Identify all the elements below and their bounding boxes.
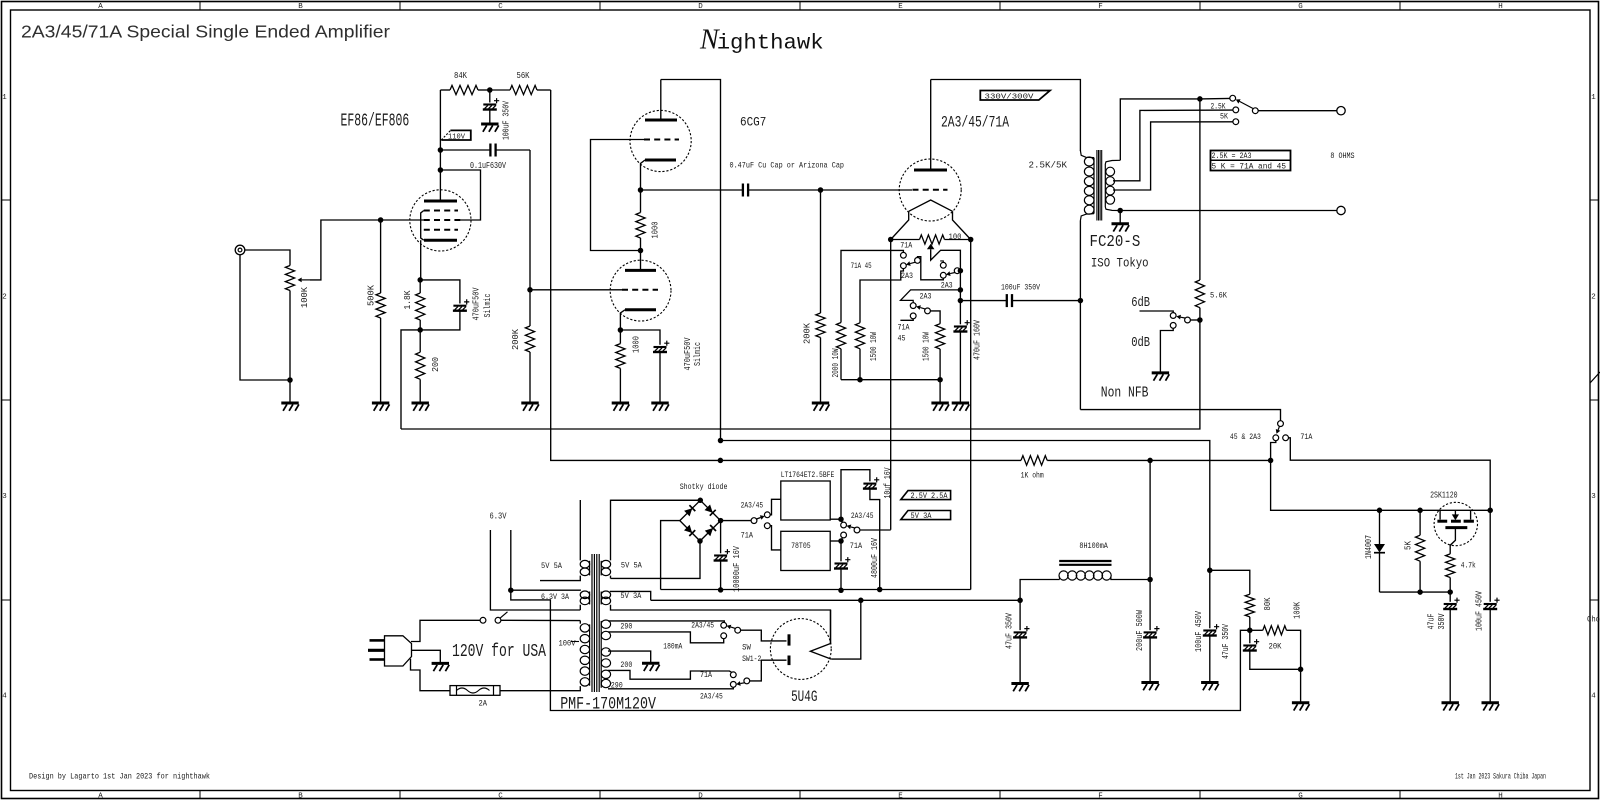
cathode resistor 1.8K — [416, 280, 425, 330]
label 5K sel — [1220, 111, 1229, 121]
2SK1120 gate bar — [1445, 526, 1467, 529]
label 5U4G — [791, 688, 817, 706]
svg-text:470uF50V: 470uF50V — [683, 337, 693, 370]
junction cathode bottom — [417, 327, 423, 333]
svg-text:2.5V 2.5A: 2.5V 2.5A — [911, 493, 948, 501]
HV tap 290 bottom — [608, 687, 733, 689]
wire output hot — [1258, 110, 1337, 112]
contact hv2 71A — [730, 672, 736, 678]
label 2.5K/5K — [1029, 161, 1068, 171]
ground 0dB — [1152, 373, 1170, 381]
svg-text:8 OHMS: 8 OHMS — [1330, 151, 1354, 161]
capacitor 10000uF 16V — [714, 521, 730, 590]
svg-text:200: 200 — [620, 660, 632, 670]
label EF86/EF806 — [341, 111, 410, 131]
contact reg 71A — [764, 523, 770, 529]
label 71A sel — [1300, 432, 1313, 442]
contact Bplus top — [1278, 421, 1284, 427]
ground 100uF feed — [1201, 683, 1219, 691]
OPT primary winding — [1084, 157, 1094, 214]
OPT secondary winding — [1105, 164, 1114, 207]
svg-text:4: 4 — [1591, 693, 1596, 701]
svg-text:2A3/45/71A Special Single Ende: 2A3/45/71A Special Single Ended Amplifie… — [21, 22, 390, 42]
contact 0dB — [1170, 323, 1176, 329]
label 100uF 350V — [502, 101, 512, 140]
junction bias 1500-2 — [937, 377, 943, 383]
ground divider — [1292, 703, 1310, 711]
resistor 84K — [440, 85, 489, 94]
bridge diode TL — [684, 505, 695, 516]
bridge diode TR — [705, 505, 716, 516]
svg-text:330V/300V: 330V/300V — [985, 93, 1035, 101]
OPT tap1 — [1113, 110, 1233, 181]
svg-text:4.7k: 4.7k — [1461, 561, 1476, 571]
svg-text:5V 5A: 5V 5A — [621, 561, 643, 571]
svg-text:84K: 84K — [454, 71, 467, 81]
svg-text:71A: 71A — [900, 241, 913, 251]
ground 200uF — [1141, 683, 1159, 691]
wire Bplus feed line — [721, 441, 1210, 571]
svg-text:4: 4 — [2, 693, 7, 701]
junction upper cathode — [638, 187, 644, 193]
svg-text:1N4007: 1N4007 — [1364, 535, 1374, 559]
6CG7 upper cathode — [641, 160, 677, 190]
wire plate to OPT — [931, 80, 1081, 152]
junction pot bottom — [287, 377, 293, 383]
EF86 g2 to plate strap — [440, 170, 480, 220]
label 20K — [1269, 642, 1283, 652]
contact C2 — [925, 308, 931, 314]
svg-text:A: A — [98, 3, 103, 11]
pole out select — [854, 527, 860, 533]
fuse 2A — [450, 686, 500, 696]
junction 5U4G output — [858, 598, 864, 604]
IC LT1764 box — [781, 481, 830, 520]
svg-text:6.3V: 6.3V — [490, 512, 507, 522]
svg-text:2SK1120: 2SK1120 — [1430, 491, 1458, 501]
label 200K — [511, 328, 521, 350]
wire 6.3V line a — [490, 530, 580, 610]
mosfet bus — [1380, 509, 1491, 511]
wire coupling to 6CG7 grid — [529, 150, 531, 290]
junction Bplus 45-2A3 — [1268, 458, 1274, 464]
svg-text:LT1764ET2.5BFE: LT1764ET2.5BFE — [781, 470, 835, 480]
capacitor 0.1uF630V — [440, 144, 530, 157]
contact C1 — [910, 303, 916, 309]
svg-text:D: D — [698, 793, 703, 800]
svg-text:F: F — [1098, 793, 1103, 800]
potentiometer 100K — [285, 266, 310, 291]
label 5V 5A right — [621, 561, 643, 571]
label 10000uF 16V — [732, 546, 742, 592]
label 4.7k — [1461, 561, 1476, 571]
wire 45-2A3 contact down — [1271, 441, 1276, 461]
flag 330V/300V — [980, 91, 1050, 102]
svg-text:2A3: 2A3 — [941, 281, 953, 291]
svg-text:290: 290 — [620, 622, 632, 632]
svg-text:0.47uF Cu Cap or Arizona Cap: 0.47uF Cu Cap or Arizona Cap — [730, 160, 845, 170]
svg-text:E: E — [898, 793, 903, 800]
Cho margin note — [1587, 615, 1600, 625]
svg-text:110V: 110V — [448, 133, 465, 141]
wire 71A contact down — [1289, 438, 1491, 511]
svg-text:C: C — [498, 3, 503, 11]
label 8H100mA — [1079, 541, 1108, 551]
junction cathode top — [417, 277, 423, 283]
label 1N4007 — [1364, 535, 1374, 559]
wire jack to pot — [245, 250, 290, 266]
svg-text:2A3: 2A3 — [920, 292, 932, 302]
svg-text:2A3/45/71A: 2A3/45/71A — [941, 113, 1009, 131]
wire bridge minus — [661, 521, 680, 590]
ground 100uF out — [1482, 703, 1500, 711]
label 2A3/45 hv bottom — [700, 691, 723, 701]
junction filament right — [968, 237, 974, 243]
AC plug — [368, 636, 412, 666]
transistor 2SK1120 — [1434, 502, 1477, 545]
svg-text:5K: 5K — [1220, 111, 1229, 121]
junction diode top — [1377, 508, 1383, 514]
wire commonA to B2 — [918, 257, 944, 280]
svg-text:8H100mA: 8H100mA — [1079, 541, 1108, 551]
wire upper plate to B+ riser — [661, 80, 721, 441]
HV tap 200 upper — [608, 632, 724, 643]
svg-text:3: 3 — [2, 493, 7, 501]
label 100 — [949, 232, 962, 242]
5U4G filament — [810, 643, 831, 659]
svg-text:71A: 71A — [898, 323, 911, 333]
svg-text:4800uF 16V: 4800uF 16V — [870, 538, 880, 578]
ground bias bus — [931, 403, 949, 411]
capacitor 10uF 16V — [841, 470, 880, 590]
ground 47uF gate — [1442, 703, 1460, 711]
gate reference rail — [1380, 591, 1451, 593]
ground EF86 cathode — [412, 403, 430, 411]
label 100uF 350V ultrapath — [1001, 283, 1041, 293]
svg-text:5K: 5K — [1404, 541, 1414, 550]
wire divider to ground — [1300, 669, 1302, 702]
wire to 2.5K contact — [1200, 97, 1230, 100]
contact Bplus 71A — [1283, 435, 1289, 441]
label 2SK1120 — [1430, 491, 1458, 501]
OPT tap2 — [1113, 122, 1233, 190]
label 56K — [517, 71, 530, 81]
label FC20-S — [1090, 233, 1141, 252]
label 2A3/45/71A — [941, 113, 1009, 131]
EF86 g3-cathode link — [421, 211, 424, 241]
svg-text:G: G — [1298, 793, 1303, 800]
contact B1 hook — [940, 261, 946, 268]
label 5.6K — [1210, 291, 1228, 301]
junction choke out — [1147, 577, 1153, 583]
junction 10uF minus — [877, 587, 883, 593]
svg-text:5 K = 71A and 45: 5 K = 71A and 45 — [1212, 161, 1287, 171]
label 2A3 a — [901, 271, 913, 281]
svg-text:71A: 71A — [1300, 432, 1313, 442]
label 1000 lower — [632, 336, 642, 353]
pole NFB — [1185, 317, 1198, 323]
label 71A reg — [741, 531, 754, 541]
tube EF86 — [410, 190, 471, 251]
bridge top corner — [698, 498, 704, 504]
wire plug ground — [412, 650, 441, 663]
PMF 5V5A left winding — [540, 500, 590, 581]
junction 4800uF minus — [838, 588, 844, 594]
2A3 grid — [913, 189, 948, 191]
tube 5U4G — [770, 619, 831, 680]
svg-text:71A: 71A — [741, 531, 754, 541]
label 1.8K — [403, 290, 413, 310]
resistor 56K — [490, 85, 551, 94]
wire 5U4G filament top — [830, 610, 832, 643]
svg-text:45 & 2A3: 45 & 2A3 — [1230, 432, 1261, 442]
EF86 grid2 — [424, 219, 461, 221]
resistor 1000 upper — [636, 190, 645, 251]
svg-text:Non NFB: Non NFB — [1101, 384, 1149, 401]
2SK1120 gate lead — [1450, 528, 1455, 554]
junction plate-coupling — [438, 147, 444, 153]
label 2.5K sel — [1211, 102, 1227, 112]
label 0dB — [1131, 336, 1150, 351]
svg-text:2: 2 — [1591, 294, 1596, 302]
junction 78T05 out — [838, 538, 844, 544]
svg-text:1500 10W: 1500 10W — [869, 332, 879, 361]
label 80K — [1263, 597, 1273, 610]
svg-text:56K: 56K — [517, 71, 530, 81]
wire pot bottom to ground — [289, 380, 291, 403]
pole hv1 — [735, 627, 741, 633]
svg-text:H: H — [1498, 793, 1503, 800]
junction common B — [958, 268, 964, 274]
wire OPT primary bottom — [1079, 301, 1081, 410]
wire bias bus to ground — [939, 380, 941, 403]
label 10uf 16V — [883, 467, 893, 498]
svg-text:PMF-170M120V: PMF-170M120V — [560, 695, 656, 715]
svg-text:1000: 1000 — [632, 336, 642, 353]
label 470uF50V lower — [683, 337, 693, 370]
flag 5V 3A — [901, 511, 951, 522]
wire grid to tube — [821, 189, 913, 191]
pole output selector — [1252, 108, 1258, 114]
tube 6CG7 lower — [610, 260, 671, 321]
EF86 cathode — [421, 240, 457, 280]
svg-text:B: B — [298, 793, 303, 800]
junction output grid — [818, 187, 824, 193]
6CG7 upper grid leak — [591, 140, 645, 251]
hum pot 100 — [891, 235, 971, 301]
svg-text:1K ohm: 1K ohm — [1021, 471, 1044, 481]
svg-text:10000uF 16V: 10000uF 16V — [732, 546, 742, 592]
resistor 200K — [525, 290, 534, 403]
capacitor 47uF 350V divider — [1243, 630, 1301, 669]
svg-text:120V for USA: 120V for USA — [452, 642, 546, 662]
svg-text:100V: 100V — [559, 639, 577, 649]
label 71A hv — [700, 670, 713, 680]
2A3 filament right leg — [953, 211, 971, 239]
label 2000 10W — [831, 348, 841, 377]
svg-text:SW: SW — [742, 642, 751, 652]
wire raw B+ from 5U4G — [651, 599, 1020, 601]
label 47uF 350V gate — [1427, 613, 1447, 629]
svg-text:200K: 200K — [511, 328, 521, 350]
wire to 78T05 in — [770, 526, 781, 550]
svg-text:2.5K: 2.5K — [1211, 102, 1227, 112]
wire Bplus rail front — [551, 90, 721, 460]
switch arm A — [906, 261, 915, 266]
svg-text:ISO Tokyo: ISO Tokyo — [1091, 256, 1149, 271]
wire NFB line — [401, 320, 1200, 429]
HV tap 200 lower — [608, 670, 732, 679]
wire pot wiper to grid node — [310, 220, 424, 280]
label 100uF 450V feed — [1194, 611, 1204, 652]
svg-text:100uF 350V: 100uF 350V — [1001, 283, 1041, 293]
label 47uF 350V divider — [1221, 624, 1231, 659]
svg-text:1.8K: 1.8K — [403, 290, 413, 310]
title text — [21, 22, 390, 42]
contact hv1 200 — [721, 633, 727, 639]
capacitor 470uF50V Silmic 6CG7 — [620, 330, 669, 403]
contact B2 2A3 — [940, 272, 946, 278]
svg-text:0.1uF630V: 0.1uF630V — [470, 161, 506, 171]
resistor 1500 10W first — [855, 323, 864, 380]
ground center tap — [642, 663, 660, 671]
junction divider — [1247, 628, 1253, 634]
arm reg select — [757, 515, 765, 520]
svg-text:5U4G: 5U4G — [791, 688, 817, 706]
svg-text:2A3/45: 2A3/45 — [700, 691, 723, 701]
6CG7 lower grid — [530, 289, 658, 291]
junction SRPP mid — [638, 248, 644, 254]
label 71A filament — [900, 241, 913, 251]
svg-text:0dB: 0dB — [1131, 336, 1150, 351]
Nighthawk logo — [699, 25, 824, 56]
contact 6dB — [1170, 313, 1176, 319]
2A3 plate — [914, 80, 947, 171]
svg-text:2A3: 2A3 — [901, 271, 913, 281]
diode 1N4007 — [1374, 510, 1385, 592]
capacitor 100uF 450V feed — [1203, 570, 1219, 682]
switch arm B — [946, 271, 955, 276]
resistor 200 cathode — [416, 330, 425, 403]
footer design credit — [29, 772, 210, 782]
contact out 71A — [841, 532, 847, 539]
junction divider ground — [1298, 667, 1304, 673]
svg-text:Shotky diode: Shotky diode — [680, 482, 728, 492]
EF86 plate — [424, 90, 457, 201]
wire 6CG7 cathode to coupling cap — [641, 189, 743, 191]
wire choke out riser — [1149, 460, 1151, 579]
resistor 4.7k — [1446, 554, 1455, 592]
PMF HV secondary — [601, 620, 610, 688]
choke 8H100mA — [1059, 561, 1150, 580]
svg-text:SW1-2: SW1-2 — [742, 654, 761, 664]
junction lower cathode — [618, 327, 624, 333]
wire 0dB to ground — [1160, 328, 1173, 372]
flag 2.5V 2.5A — [901, 491, 951, 501]
OPT secondary bottom lead — [1105, 207, 1120, 211]
wire pole to filament — [860, 529, 891, 531]
junction NFB pole — [1197, 317, 1203, 323]
contact common B — [954, 268, 960, 274]
label 120V for USA — [452, 642, 546, 662]
2SK1120 drain tap — [1437, 510, 1447, 521]
heater bias line — [511, 590, 1250, 710]
arm hv1 — [727, 625, 736, 630]
svg-text:180mA: 180mA — [663, 642, 683, 652]
junction 5K top — [1417, 508, 1423, 514]
svg-text:H: H — [1498, 3, 1503, 11]
svg-text:2A: 2A — [479, 700, 488, 709]
2SK1120 arrow tap — [1451, 510, 1461, 521]
pole hv2 — [744, 678, 750, 684]
label 6dB — [1131, 296, 1150, 311]
label 470uF50V — [472, 287, 482, 320]
label 1500 10W second — [922, 332, 932, 361]
svg-text:200: 200 — [431, 357, 441, 372]
junction NFB takeoff — [1197, 96, 1203, 102]
svg-text:5V 5A: 5V 5A — [541, 561, 563, 571]
wire bridge AC top — [611, 499, 701, 501]
label 45 c — [898, 334, 906, 344]
wire Bplus bus — [720, 459, 1021, 461]
contact common A — [915, 258, 921, 264]
svg-text:100uF 350V: 100uF 350V — [502, 101, 512, 140]
wire plug hot — [411, 620, 480, 641]
contact reg 2A3-45 — [764, 512, 770, 518]
junction bus end — [1487, 508, 1493, 514]
contact Bplus 45-2A3 — [1273, 435, 1279, 441]
label SW — [742, 642, 751, 652]
HV center tap — [608, 651, 651, 663]
wire bridge AC bottom — [611, 541, 701, 578]
contact 2.5K — [1230, 95, 1236, 101]
label 2A fuse — [479, 700, 488, 709]
6CG7 upper grid — [644, 139, 679, 141]
footer date place — [1455, 772, 1546, 782]
bridge bottom corner — [697, 538, 703, 544]
label ISO Tokyo — [1091, 256, 1149, 271]
capacitor 100uF 350V decoupling — [483, 90, 499, 124]
svg-text:71A: 71A — [700, 670, 713, 680]
capacitor 470uF50V Silmic EF86 — [420, 280, 469, 330]
svg-text:2A3/45: 2A3/45 — [691, 621, 714, 631]
6CG7 upper plate — [645, 80, 677, 121]
svg-text:500K: 500K — [367, 284, 377, 306]
svg-text:1500 10W: 1500 10W — [922, 332, 932, 361]
wire filament right leg down — [970, 240, 972, 590]
resistor 20K — [1250, 626, 1301, 670]
contact hv1 290 — [721, 622, 727, 628]
junction filament left — [888, 237, 894, 243]
svg-text:100K: 100K — [300, 286, 310, 308]
6CG7 lower plate — [625, 251, 656, 271]
terminal output hot — [1337, 107, 1345, 115]
label 71A out — [850, 541, 863, 551]
junction 10000uF minus — [718, 587, 724, 593]
svg-text:2.5K/5K: 2.5K/5K — [1029, 161, 1068, 171]
svg-text:6dB: 6dB — [1131, 296, 1150, 311]
ground 200K grid — [812, 403, 830, 411]
svg-text:6.3V 3A: 6.3V 3A — [541, 592, 570, 602]
svg-text:100K: 100K — [1293, 601, 1303, 618]
junction 4.7k bottom — [1447, 589, 1453, 595]
arm NFB — [1176, 315, 1185, 320]
label PMF-170M120V — [560, 695, 656, 715]
label LT1764ET2.5BFE — [781, 470, 835, 480]
impedance info box — [1211, 151, 1291, 172]
HV tap 290 top — [608, 621, 724, 623]
label 2A3/45 out — [851, 511, 874, 521]
